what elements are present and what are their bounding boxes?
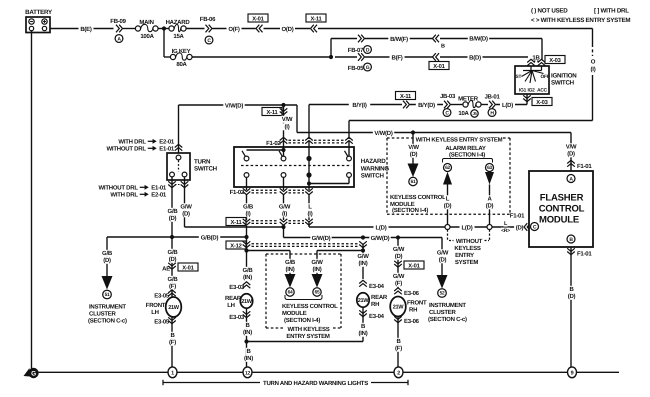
svg-text:(D): (D) (439, 257, 447, 264)
connector FB-05 / pin G (335, 53, 371, 72)
node G/W front RH branch (396, 235, 400, 239)
svg-text:ST: ST (516, 74, 522, 80)
svg-text:B(D): B(D) (469, 54, 481, 61)
wire B/W(D) (440, 35, 542, 42)
svg-text:ENTRY SYSTEM: ENTRY SYSTEM (286, 333, 330, 340)
connector FB-06 / pin C (186, 16, 216, 44)
wire B(F) (365, 54, 433, 61)
svg-text:G: G (366, 65, 370, 71)
svg-text:CLUSTER: CLUSTER (429, 309, 457, 316)
svg-text:F1-01: F1-01 (510, 213, 525, 220)
svg-text:51: 51 (105, 292, 110, 298)
svg-text:(SECTION I-4): (SECTION I-4) (284, 317, 320, 324)
wire B(D) flasher ground (566, 286, 578, 300)
svg-text:(IN): (IN) (313, 266, 322, 273)
svg-text:ALARM RELAY: ALARM RELAY (445, 145, 486, 152)
svg-text:10A: 10A (458, 110, 469, 117)
wire G/B(I) (242, 194, 254, 220)
connector F1-02 hazard top (266, 137, 353, 147)
connector X-12 (226, 241, 367, 249)
svg-text:(D): (D) (444, 203, 452, 210)
battery (25, 9, 53, 33)
connector X-11 on row 1 (306, 14, 326, 32)
ground 9 (568, 367, 577, 378)
connector F1-01 flasher C (510, 213, 531, 231)
keyless module pin 64 (283, 259, 298, 296)
svg-text:O: O (591, 59, 596, 66)
wire G/B(D) to cluster (101, 237, 113, 276)
wire G/W(IN) (356, 253, 371, 267)
node V/W keyless branch (411, 130, 415, 134)
svg-text:(I): (I) (246, 211, 251, 218)
svg-text:IG2: IG2 (528, 88, 536, 94)
svg-text:100A: 100A (140, 33, 154, 40)
connector E3-04 lower (359, 307, 384, 341)
svg-text:FB-06: FB-06 (200, 16, 216, 23)
wire G/W(F) (393, 273, 405, 287)
wire B to FB junction (192, 56, 331, 58)
svg-text:G/W: G/W (393, 246, 405, 253)
fuse HAZARD 15A (166, 19, 191, 40)
svg-text:G/B: G/B (168, 276, 179, 283)
svg-text:<R>: <R> (501, 228, 510, 234)
svg-text:X-12: X-12 (230, 242, 241, 249)
ignition switch (515, 66, 577, 94)
svg-text:(D): (D) (182, 211, 190, 218)
node L(D) alarm relay A junction (487, 225, 492, 230)
label WITHOUT KEYLESS ENTRY SYSTEM (448, 230, 490, 267)
svg-text:52: 52 (440, 291, 445, 297)
wire G/W(D) to cluster 52 (437, 238, 449, 276)
svg-text:O(D): O(D) (282, 26, 294, 33)
svg-text:X-01: X-01 (433, 63, 445, 70)
ground 2 (394, 367, 403, 378)
svg-text:12: 12 (245, 371, 251, 377)
instrument cluster pin 52 (437, 275, 448, 297)
svg-text:62: 62 (445, 165, 450, 171)
svg-text:E3-04: E3-04 (369, 313, 385, 320)
dashed box WITH KEYLESS ENTRY SYSTEM (387, 137, 510, 215)
label turn and hazard warning lights (163, 380, 408, 387)
turn switch (167, 153, 218, 180)
svg-text:21W: 21W (241, 299, 253, 305)
svg-text:L: L (308, 204, 312, 211)
svg-text:G/W: G/W (393, 273, 405, 280)
bulb front LH 21W (146, 297, 182, 317)
keyless module bracket (285, 295, 322, 300)
svg-text:O(F): O(F) (228, 26, 240, 33)
svg-text:E3-03: E3-03 (229, 284, 245, 291)
svg-text:B(F): B(F) (392, 54, 403, 61)
wire battery ground (left side down) (31, 31, 33, 369)
svg-text:(F): (F) (395, 345, 402, 352)
svg-text:X-01: X-01 (408, 262, 420, 269)
connector E3-05 upper (154, 290, 176, 300)
node G/B row junction (244, 235, 248, 239)
svg-text:V/W: V/W (408, 144, 419, 151)
svg-text:SWITCH: SWITCH (194, 166, 218, 173)
label WITH KEYLESS ENTRY SYSTEM (bottom) (286, 326, 330, 340)
svg-text:21W: 21W (358, 298, 370, 304)
svg-text:(I): (I) (282, 211, 287, 218)
svg-text:E3-06: E3-06 (404, 318, 420, 325)
wire O(I) right edge vertical (591, 29, 596, 121)
svg-text:(D): (D) (567, 151, 575, 158)
svg-text:(I): (I) (591, 66, 596, 73)
wire O to right edge (318, 28, 593, 30)
fuse MAIN 100A (135, 19, 158, 40)
svg-text:G/W(D): G/W(D) (312, 235, 331, 242)
wire B(IN) rear LH (240, 322, 255, 336)
svg-text:(D): (D) (410, 151, 418, 158)
svg-text:21W: 21W (393, 305, 405, 311)
svg-text:(D): (D) (169, 215, 177, 222)
svg-text:F1-01: F1-01 (577, 251, 592, 258)
svg-text:(F): (F) (395, 280, 402, 287)
flasher terminal A (567, 175, 575, 183)
svg-text:L(D): L(D) (502, 102, 513, 109)
svg-text:(SECTION I-4): (SECTION I-4) (449, 152, 485, 159)
connector X-01 front RH (394, 261, 424, 270)
svg-text:V/W(D): V/W(D) (225, 103, 243, 110)
connector X-11 on V/W(I) wire (262, 105, 293, 141)
wire L(I) elbow to L(D) row (309, 222, 445, 232)
svg-text:X-11: X-11 (230, 220, 242, 226)
label instrument cluster LH (88, 304, 127, 325)
svg-text:(D): (D) (103, 257, 111, 264)
svg-text:CONTROL: CONTROL (539, 204, 585, 215)
connector JB-03 / pin C (440, 93, 456, 116)
svg-text:(IN): (IN) (243, 329, 252, 336)
connector E3-05 lower (154, 317, 176, 369)
wire G/B vertical to node (246, 226, 248, 241)
connector E3-06 upper (394, 288, 419, 297)
svg-text:L(D): L(D) (462, 225, 473, 232)
svg-text:(SECTION I-4): (SECTION I-4) (392, 207, 428, 214)
svg-text:ACC: ACC (537, 88, 547, 94)
svg-text:B/Y(I): B/Y(I) (352, 102, 366, 109)
svg-text:JB-01: JB-01 (484, 94, 500, 101)
svg-text:G/B: G/B (102, 250, 113, 257)
wire G/W(I) (279, 194, 291, 220)
svg-text:(D): (D) (395, 253, 403, 260)
wire G/W(D) front RH (393, 238, 405, 289)
wire G/B(D) front LH (167, 237, 179, 297)
wire V/W(D) to flasher row (297, 105, 571, 137)
svg-text:REAR: REAR (371, 294, 388, 301)
connector X-03 ignition bottom (523, 94, 552, 106)
wire B(IN) to ground 12 (241, 348, 256, 362)
flasher terminal B (567, 235, 575, 243)
hazard switch illumination pole 3 (306, 142, 311, 191)
svg-text:IGNITION: IGNITION (551, 73, 577, 80)
svg-text:REAR: REAR (225, 295, 242, 302)
ground 12 (243, 367, 252, 378)
svg-text:FB-09: FB-09 (110, 18, 126, 25)
svg-text:MODULE: MODULE (539, 215, 579, 226)
wire B(IN) rear RH (356, 323, 371, 337)
svg-text:X-11: X-11 (400, 94, 412, 100)
svg-text:BATTERY: BATTERY (25, 9, 53, 16)
svg-text:OFF: OFF (541, 74, 550, 80)
wire B(E) (50, 26, 114, 33)
svg-text:B/W(D): B/W(D) (469, 36, 488, 43)
svg-text:15A: 15A (173, 33, 184, 40)
svg-text:2: 2 (397, 371, 400, 377)
svg-text:F1-02: F1-02 (230, 189, 245, 196)
svg-text:(IN): (IN) (243, 274, 252, 281)
bulb front RH 21W (390, 297, 427, 317)
hazard switch pole 4 (309, 142, 351, 184)
svg-text:V/W(D): V/W(D) (374, 130, 392, 137)
svg-text:G: G (31, 371, 36, 378)
svg-text:(SECTION C-c): (SECTION C-c) (428, 316, 467, 323)
wire G/W(D) from turn switch (180, 177, 283, 227)
wire G/B(D) from turn switch (167, 177, 179, 237)
svg-text:G/B: G/B (285, 259, 296, 266)
label keyless control module (390, 194, 446, 214)
svg-text:E3-05: E3-05 (154, 293, 170, 300)
svg-text:INSTRUMENT: INSTRUMENT (89, 304, 126, 311)
svg-text:WITH DRL: WITH DRL (110, 192, 138, 199)
wire B/Y(I) (309, 102, 402, 109)
label instrument cluster RH (428, 302, 467, 323)
flasher control module (529, 171, 593, 247)
svg-text:X-01: X-01 (252, 15, 264, 22)
svg-text:63: 63 (487, 165, 492, 171)
svg-text:WARNING: WARNING (361, 165, 390, 172)
svg-text:(SECTION C-c): (SECTION C-c) (88, 318, 127, 325)
node V/W split to hazard (281, 103, 285, 107)
svg-text:WITHOUT DRL: WITHOUT DRL (107, 146, 147, 153)
svg-text:LH: LH (151, 309, 159, 316)
svg-text:JB-03: JB-03 (440, 93, 456, 100)
connector FB-09 / pin A (110, 18, 135, 42)
wire / node after MAIN (158, 26, 169, 30)
svg-text:KEYLESS CONTROL: KEYLESS CONTROL (390, 194, 446, 201)
fuse METER 10A (451, 96, 481, 118)
svg-text:G/W: G/W (437, 250, 449, 257)
svg-text:E2-01: E2-01 (159, 139, 175, 146)
keyless control module (lamps) (266, 254, 341, 328)
svg-text:HAZARD: HAZARD (361, 158, 386, 165)
svg-text:KEYLESS: KEYLESS (454, 245, 481, 252)
svg-text:X-01: X-01 (182, 264, 194, 271)
flasher terminal C (531, 223, 539, 231)
svg-text:G/W(D): G/W(D) (371, 235, 390, 242)
svg-text:[ ] WITH DRL: [ ] WITH DRL (594, 8, 629, 15)
svg-text:G/B: G/B (168, 249, 179, 256)
svg-text:( ) NOT USED: ( ) NOT USED (531, 8, 568, 15)
svg-text:B: B (441, 44, 445, 50)
svg-text:KEYLESS CONTROL: KEYLESS CONTROL (282, 303, 338, 310)
svg-text:9: 9 (571, 371, 574, 377)
wire V/W(D) turn switch feed (179, 102, 298, 153)
svg-text:SYSTEM: SYSTEM (455, 259, 478, 266)
svg-text:WITH KEYLESS ENTRY SYSTEM: WITH KEYLESS ENTRY SYSTEM (416, 137, 503, 144)
svg-text:WITH DRL: WITH DRL (118, 139, 146, 146)
connector JB-01 / pin H (481, 94, 500, 117)
connector X-11 lighting harness (226, 218, 313, 226)
connector X-01 on row 1 (248, 14, 268, 32)
svg-text:IG1: IG1 (519, 88, 527, 94)
wire B(F) front LH (167, 332, 179, 346)
svg-text:CLUSTER: CLUSTER (89, 311, 117, 318)
svg-text:ENTRY: ENTRY (455, 252, 474, 259)
svg-text:61: 61 (411, 179, 416, 185)
svg-text:G/B: G/B (168, 208, 179, 215)
svg-text:(IN): (IN) (359, 260, 368, 267)
connector AE X-01 front LH (162, 263, 198, 273)
svg-text:V/W: V/W (566, 144, 577, 151)
svg-text:X-11: X-11 (266, 110, 278, 116)
connector E1-01/E2-01 turn switch bottom (99, 181, 189, 198)
wire O horizontal to hazard switch (349, 121, 593, 140)
svg-text:1: 1 (171, 371, 174, 377)
connector E3-06 lower (394, 316, 419, 369)
svg-text:L: L (446, 196, 450, 203)
svg-text:F1-01: F1-01 (577, 163, 592, 170)
svg-text:V/W: V/W (282, 116, 293, 123)
connector F1-01 flasher A (567, 160, 592, 170)
wire L(D) between junctions (450, 224, 487, 231)
wire B/Y(D) (410, 102, 443, 109)
svg-text:(IN): (IN) (359, 330, 368, 337)
svg-text:(D): (D) (169, 256, 177, 263)
svg-text:65: 65 (315, 290, 320, 296)
keyless module pin 65 (310, 259, 325, 296)
svg-text:G/W: G/W (279, 204, 291, 211)
svg-text:< > WITH KEYLESS ENTRY SYSTEM: < > WITH KEYLESS ENTRY SYSTEM (531, 17, 630, 24)
svg-text:G/W: G/W (180, 204, 192, 211)
svg-text:LH: LH (227, 302, 235, 309)
svg-text:E3-05: E3-05 (154, 319, 170, 326)
svg-text:WITHOUT DRL: WITHOUT DRL (99, 185, 139, 192)
alarm relay pin 63 (484, 164, 496, 225)
svg-text:(IN): (IN) (244, 355, 253, 362)
svg-text:WITHOUT: WITHOUT (456, 238, 483, 245)
svg-text:X-03: X-03 (549, 57, 561, 64)
svg-text:E1-01: E1-01 (151, 185, 167, 192)
svg-text:E3-03: E3-03 (229, 314, 245, 321)
wire G/B keyless branch (244, 241, 290, 280)
keyless control module pin 61 (408, 133, 420, 186)
hazard switch pole 2 (279, 142, 286, 191)
alarm relay pin 62 (442, 164, 454, 225)
wire G/B(D) row to left (107, 234, 247, 241)
svg-text:B/Y(D): B/Y(D) (418, 102, 435, 109)
svg-text:G/W: G/W (357, 253, 369, 260)
svg-text:G/B: G/B (243, 267, 254, 274)
svg-text:SWITCH: SWITCH (551, 80, 575, 87)
wire to IG KEY fuse (164, 29, 170, 58)
wire G/B(F) (167, 276, 179, 290)
svg-text:(D): (D) (516, 225, 524, 232)
wire G/W junction and row (281, 225, 442, 242)
ground 1 (168, 367, 177, 378)
connector B on B/W wire (433, 35, 446, 50)
svg-text:(F): (F) (169, 283, 176, 290)
connector X-11 on B/Y wire (396, 92, 416, 109)
wire rear lamp ground bus (247, 341, 364, 343)
label alarm relay (443, 145, 493, 163)
svg-text:FLASHER: FLASHER (540, 193, 584, 204)
svg-text:FRONT: FRONT (146, 302, 166, 309)
hazard warning switch (234, 147, 389, 187)
svg-text:(I): (I) (308, 211, 313, 218)
wire B/W(F) (365, 36, 433, 43)
node rear lamp ground bus (244, 339, 248, 343)
svg-text:B/W(F): B/W(F) (390, 36, 408, 43)
svg-text:WITH KEYLESS: WITH KEYLESS (287, 326, 329, 333)
connector FB-07 / pin D (331, 35, 371, 54)
wire G/B(IN) (240, 267, 255, 281)
ground point G (24, 368, 620, 378)
connector F1-02 hazard bottom (230, 188, 313, 196)
instrument cluster pin 51 (102, 276, 113, 299)
svg-text:80A: 80A (176, 61, 187, 68)
svg-text:METER: METER (458, 96, 479, 103)
svg-text:L(D): L(D) (376, 225, 387, 232)
connector E2-01/E1-01 turn switch top (107, 139, 183, 153)
svg-text:FB-05: FB-05 (348, 65, 364, 72)
svg-text:E3-06: E3-06 (404, 290, 420, 297)
svg-text:E3-04: E3-04 (369, 283, 385, 290)
node FB-05/FB-07 junction (329, 39, 333, 60)
node G/W rear RH branch (361, 235, 365, 239)
svg-text:B(E): B(E) (80, 26, 92, 33)
fuse IG KEY 80A (170, 48, 192, 68)
connector F1-01 flasher B (567, 247, 592, 369)
connector E3-03 upper (229, 282, 250, 291)
svg-text:64: 64 (288, 290, 293, 296)
svg-text:MODULE: MODULE (390, 201, 415, 208)
svg-text:TURN: TURN (194, 159, 211, 166)
svg-text:FRONT: FRONT (407, 300, 427, 307)
svg-text:RH: RH (409, 307, 417, 314)
svg-text:X-03: X-03 (536, 99, 548, 106)
connector E3-04 upper (359, 280, 384, 290)
svg-text:(F): (F) (169, 339, 176, 346)
svg-text:(D): (D) (568, 293, 576, 300)
svg-text:RH: RH (371, 301, 379, 308)
wire L(D) <R> to flasher (492, 220, 525, 234)
bulb rear RH 21W (357, 293, 388, 308)
legend NOT USED / WITH DRL / WITH KEYLESS ENTRY SYSTEM (531, 8, 630, 25)
svg-text:G/B: G/B (243, 204, 254, 211)
connector E3-03 lower (229, 308, 250, 369)
wire O(D) (264, 26, 311, 33)
svg-text:TURN AND HAZARD WARNING LIGHTS: TURN AND HAZARD WARNING LIGHTS (263, 380, 368, 387)
wire V/W(D) down to flasher A (565, 133, 577, 172)
svg-text:G/B(D): G/B(D) (201, 235, 219, 242)
wire G/W keyless branch (317, 244, 365, 280)
svg-text:(I): (I) (285, 124, 290, 131)
svg-text:E1-01: E1-01 (159, 146, 175, 153)
svg-text:(D): (D) (486, 203, 494, 210)
wire O(F) (213, 26, 256, 33)
svg-text:MODULE: MODULE (282, 310, 307, 317)
wire B(D) to ignition 1B (440, 54, 541, 61)
hazard switch pole 1 (242, 148, 286, 190)
wire B/W down to ignition switch (541, 39, 543, 61)
connector X-03 ignition top (527, 56, 565, 66)
connector X-01 on B wire (429, 53, 449, 70)
wire L(I) (304, 194, 316, 220)
wire L(D) to ignition (496, 102, 527, 109)
svg-text:G/W: G/W (311, 259, 323, 266)
node L(D) alarm relay L junction (445, 225, 450, 230)
